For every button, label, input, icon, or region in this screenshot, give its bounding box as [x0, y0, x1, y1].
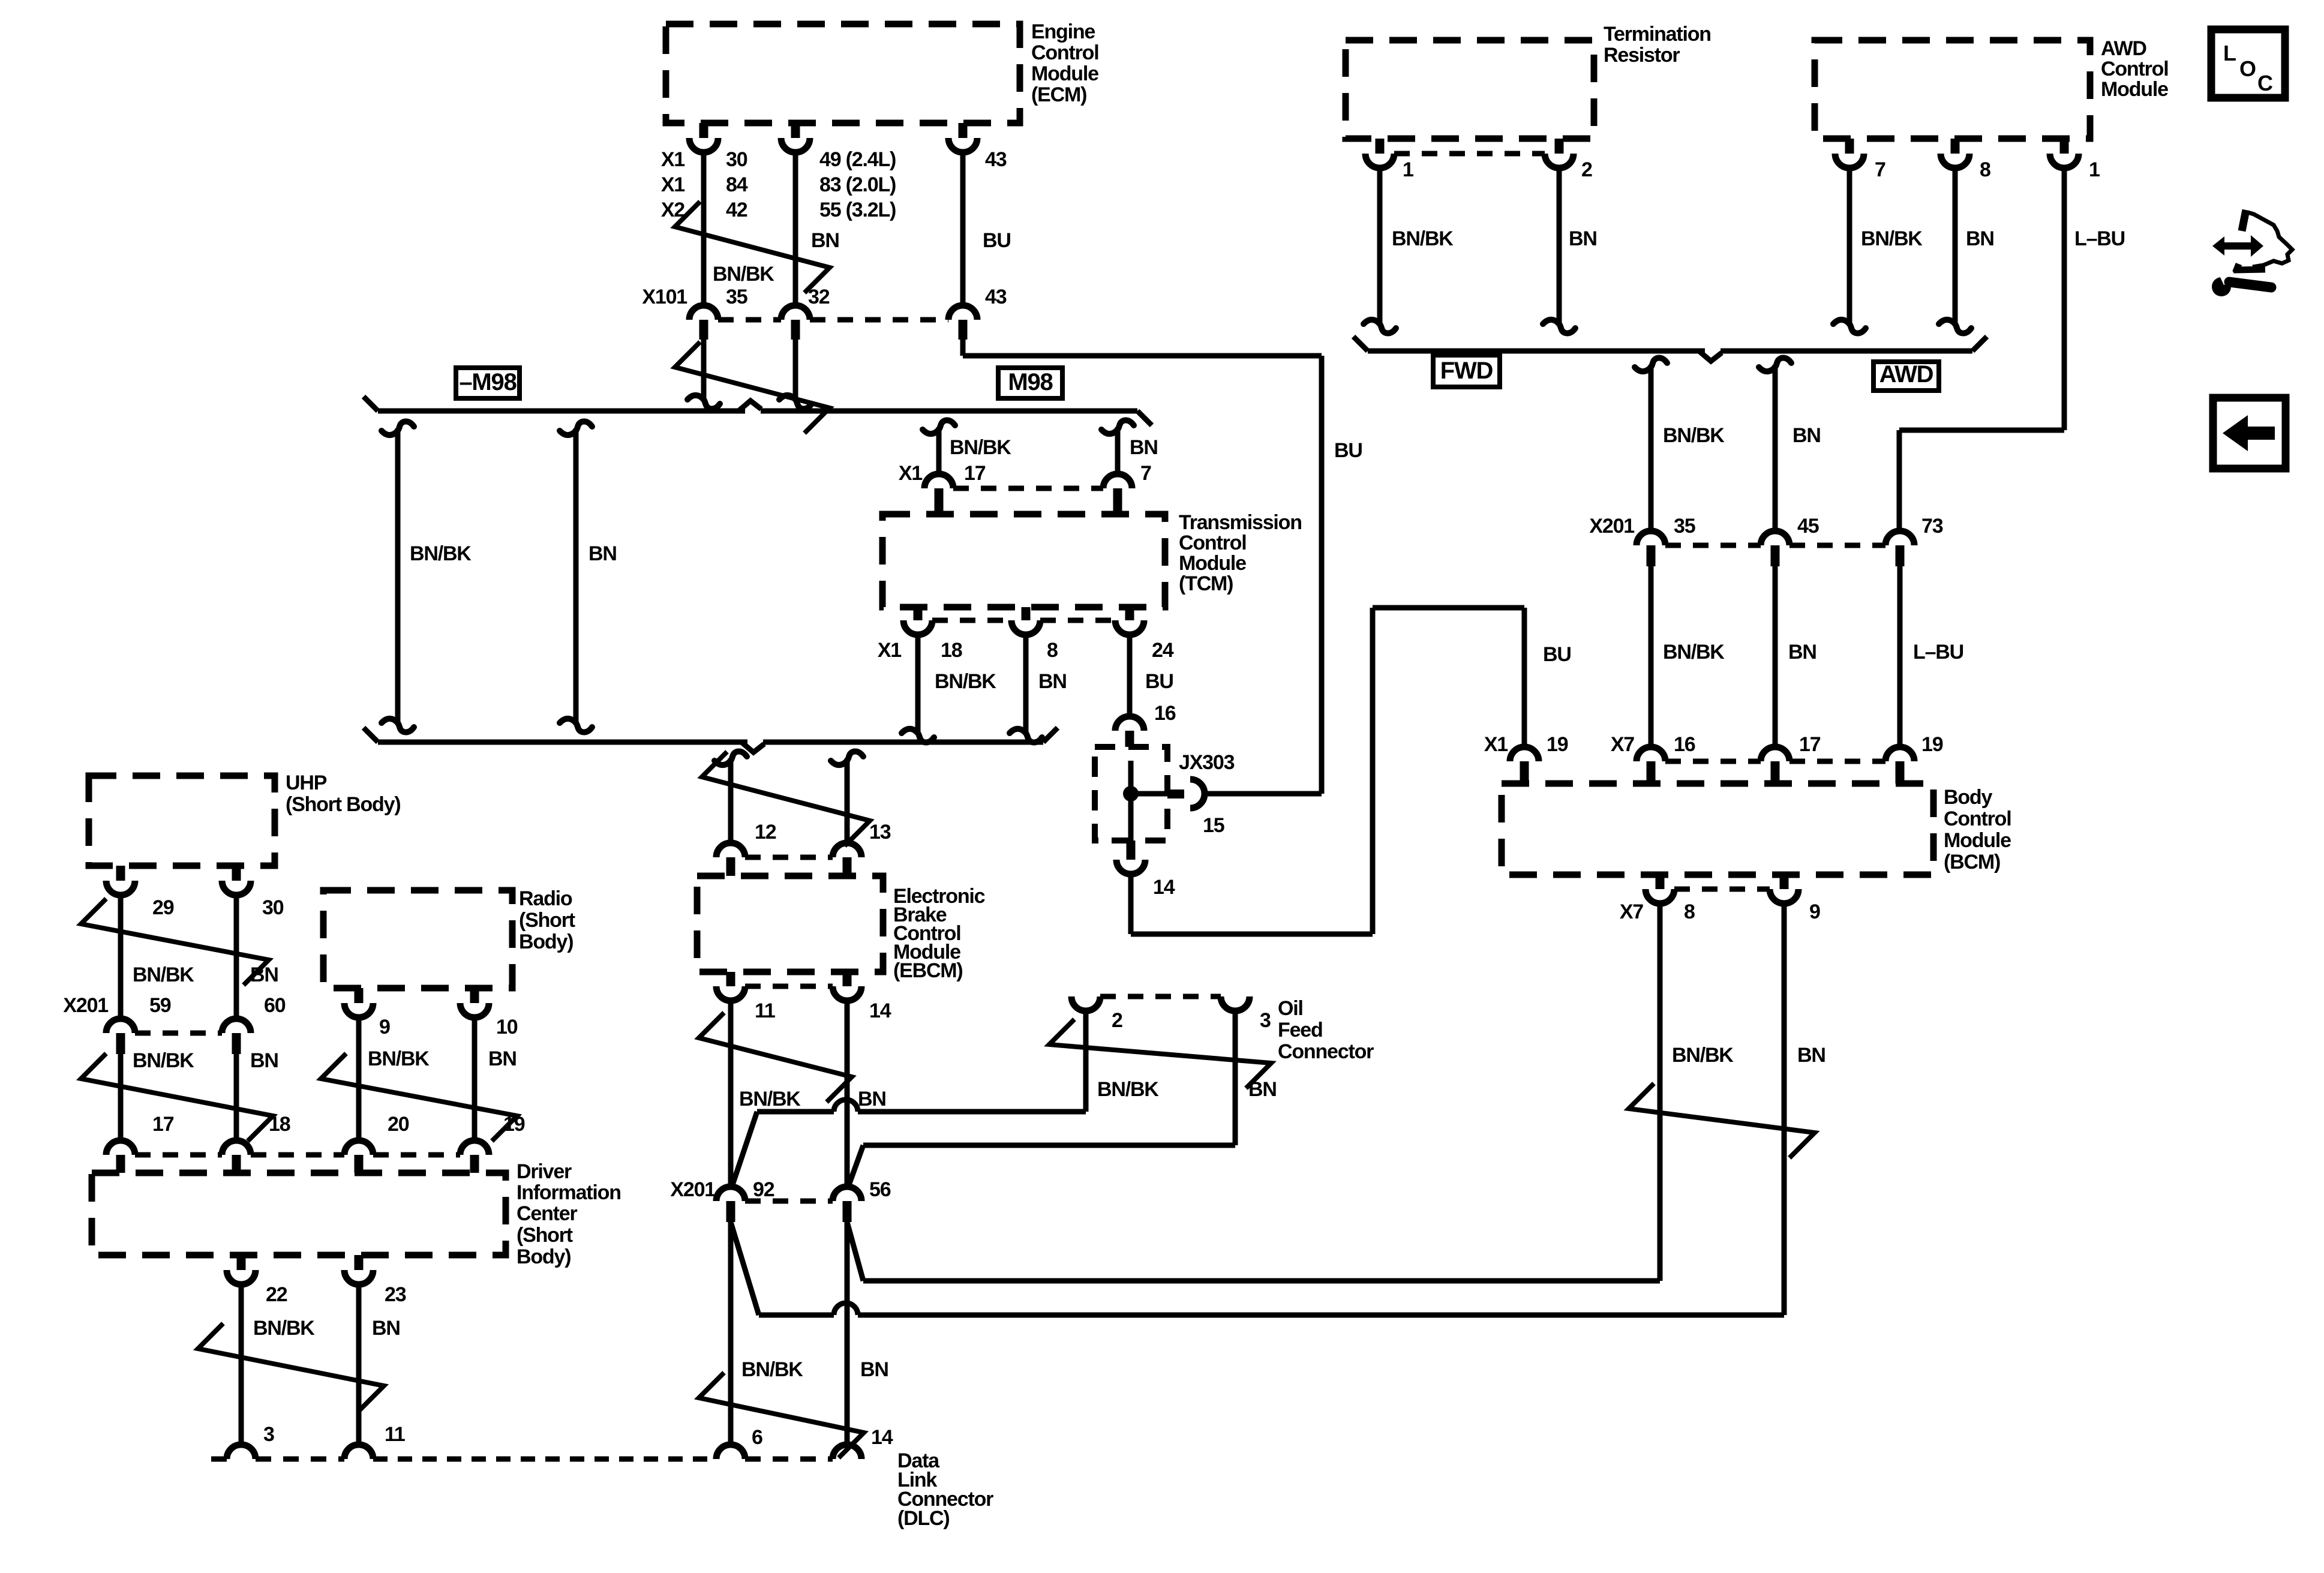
svg-text:AWD: AWD — [1879, 361, 1933, 388]
svg-text:55 (3.2L): 55 (3.2L) — [819, 199, 896, 221]
svg-text:45: 45 — [1797, 515, 1819, 538]
svg-text:3: 3 — [263, 1423, 274, 1446]
svg-text:8: 8 — [1684, 900, 1695, 923]
svg-text:15: 15 — [1203, 814, 1224, 837]
svg-text:BN: BN — [372, 1317, 400, 1340]
svg-text:42: 42 — [726, 199, 747, 221]
svg-text:(Short: (Short — [517, 1224, 573, 1247]
svg-text:13: 13 — [869, 821, 891, 843]
svg-text:Module: Module — [1944, 829, 2011, 852]
svg-text:BN/BK: BN/BK — [1392, 227, 1454, 250]
svg-text:12: 12 — [755, 821, 776, 843]
svg-text:O: O — [2239, 56, 2256, 81]
svg-text:X1: X1 — [899, 462, 922, 485]
svg-text:BN/BK: BN/BK — [1663, 641, 1725, 664]
svg-text:X201: X201 — [63, 994, 108, 1017]
svg-text:9: 9 — [1809, 900, 1820, 923]
svg-text:20: 20 — [388, 1113, 409, 1136]
svg-text:X7: X7 — [1620, 900, 1643, 923]
svg-text:35: 35 — [1674, 515, 1695, 538]
svg-text:BN: BN — [488, 1047, 517, 1070]
svg-text:2: 2 — [1581, 158, 1592, 181]
svg-text:BN/BK: BN/BK — [133, 1049, 194, 1072]
svg-text:–M98: –M98 — [459, 369, 517, 395]
svg-text:8: 8 — [1980, 158, 1990, 181]
svg-text:Information: Information — [517, 1181, 621, 1204]
svg-text:BN: BN — [1569, 227, 1597, 250]
svg-text:Body): Body) — [517, 1245, 571, 1268]
svg-text:84: 84 — [726, 173, 748, 196]
svg-text:(ECM): (ECM) — [1031, 83, 1086, 106]
svg-text:10: 10 — [496, 1016, 518, 1038]
svg-text:Module: Module — [1031, 62, 1098, 85]
svg-text:BN: BN — [1130, 436, 1158, 459]
svg-text:BN/BK: BN/BK — [410, 542, 472, 565]
svg-text:BN: BN — [858, 1088, 886, 1110]
svg-text:BN/BK: BN/BK — [133, 963, 194, 986]
svg-text:BN: BN — [250, 963, 278, 986]
svg-text:BN: BN — [250, 1049, 278, 1072]
svg-text:22: 22 — [266, 1283, 287, 1306]
svg-text:83 (2.0L): 83 (2.0L) — [819, 173, 896, 196]
svg-text:11: 11 — [385, 1423, 405, 1446]
svg-text:59: 59 — [149, 994, 171, 1017]
svg-text:Control: Control — [1944, 807, 2011, 830]
svg-text:Module: Module — [2101, 78, 2168, 101]
svg-text:X1: X1 — [1484, 733, 1508, 756]
svg-text:1: 1 — [2089, 158, 2100, 181]
svg-text:BN: BN — [1792, 424, 1821, 447]
svg-text:19: 19 — [1547, 733, 1568, 756]
svg-text:24: 24 — [1152, 639, 1174, 662]
svg-text:BN/BK: BN/BK — [253, 1317, 315, 1340]
svg-text:14: 14 — [871, 1426, 893, 1449]
svg-text:16: 16 — [1674, 733, 1695, 756]
svg-text:L: L — [2223, 41, 2236, 65]
svg-text:Transmission: Transmission — [1179, 511, 1302, 534]
svg-text:60: 60 — [264, 994, 286, 1017]
svg-text:18: 18 — [269, 1113, 290, 1136]
svg-text:BN: BN — [1248, 1078, 1277, 1101]
svg-text:AWD: AWD — [2101, 37, 2146, 60]
svg-text:17: 17 — [1799, 733, 1821, 756]
svg-text:X7: X7 — [1611, 733, 1634, 756]
svg-text:6: 6 — [752, 1426, 762, 1449]
svg-text:18: 18 — [941, 639, 962, 662]
svg-text:BN: BN — [1038, 670, 1067, 693]
svg-text:BN/BK: BN/BK — [368, 1047, 430, 1070]
svg-text:(TCM): (TCM) — [1179, 572, 1233, 595]
svg-text:(Short Body): (Short Body) — [286, 793, 400, 816]
svg-text:X1: X1 — [878, 639, 901, 662]
svg-text:X1: X1 — [661, 173, 684, 196]
svg-text:BN: BN — [588, 542, 617, 565]
svg-text:BN/BK: BN/BK — [713, 263, 774, 286]
svg-text:2: 2 — [1112, 1009, 1122, 1032]
svg-text:Termination: Termination — [1604, 23, 1711, 46]
svg-text:BN: BN — [860, 1358, 888, 1381]
svg-text:Resistor: Resistor — [1604, 44, 1680, 67]
svg-text:C: C — [2257, 71, 2273, 95]
svg-text:(BCM): (BCM) — [1944, 851, 2000, 873]
svg-text:BN: BN — [811, 229, 839, 252]
svg-text:Control: Control — [1031, 41, 1098, 64]
svg-text:BN/BK: BN/BK — [1663, 424, 1725, 447]
svg-text:30: 30 — [726, 148, 747, 171]
svg-text:BN: BN — [1966, 227, 1994, 250]
svg-text:14: 14 — [1153, 876, 1175, 899]
svg-text:56: 56 — [869, 1178, 891, 1201]
svg-text:17: 17 — [964, 462, 986, 485]
svg-text:7: 7 — [1140, 462, 1151, 485]
svg-text:29: 29 — [152, 896, 174, 919]
svg-text:Module: Module — [1179, 552, 1246, 575]
svg-text:X201: X201 — [1589, 515, 1634, 538]
svg-text:Control: Control — [2101, 58, 2168, 80]
svg-text:FWD: FWD — [1440, 358, 1493, 384]
svg-text:9: 9 — [379, 1016, 390, 1038]
svg-text:16: 16 — [1154, 702, 1176, 725]
svg-text:43: 43 — [985, 148, 1007, 171]
svg-text:73: 73 — [1921, 515, 1943, 538]
svg-text:BN/BK: BN/BK — [935, 670, 996, 693]
svg-text:BU: BU — [1543, 643, 1571, 666]
svg-text:3: 3 — [1260, 1009, 1271, 1032]
svg-text:Control: Control — [1179, 532, 1246, 554]
svg-text:BN: BN — [1797, 1044, 1825, 1067]
svg-text:Radio: Radio — [519, 887, 572, 910]
svg-text:X1: X1 — [661, 148, 684, 171]
svg-text:X2: X2 — [661, 199, 684, 221]
svg-text:Body: Body — [1944, 786, 1992, 809]
svg-text:BU: BU — [983, 229, 1011, 252]
svg-text:19: 19 — [503, 1113, 525, 1136]
svg-text:Center: Center — [517, 1202, 577, 1225]
svg-text:92: 92 — [753, 1178, 774, 1201]
svg-text:14: 14 — [869, 999, 891, 1022]
svg-text:19: 19 — [1921, 733, 1943, 756]
svg-text:JX303: JX303 — [1179, 751, 1235, 774]
svg-text:32: 32 — [808, 286, 830, 308]
svg-text:L–BU: L–BU — [1913, 641, 1963, 664]
svg-text:BN/BK: BN/BK — [739, 1088, 801, 1110]
svg-text:Oil: Oil — [1278, 997, 1303, 1020]
svg-text:43: 43 — [985, 286, 1007, 308]
svg-text:35: 35 — [726, 286, 747, 308]
svg-text:BN: BN — [1788, 641, 1816, 664]
svg-text:11: 11 — [755, 999, 775, 1022]
svg-text:Connector: Connector — [1278, 1040, 1374, 1063]
svg-text:30: 30 — [262, 896, 284, 919]
svg-text:7: 7 — [1875, 158, 1885, 181]
svg-text:M98: M98 — [1008, 369, 1053, 395]
svg-text:BN/BK: BN/BK — [1097, 1078, 1159, 1101]
svg-text:49 (2.4L): 49 (2.4L) — [819, 148, 896, 171]
svg-text:BN/BK: BN/BK — [1861, 227, 1923, 250]
svg-text:Body): Body) — [519, 930, 573, 953]
svg-text:X101: X101 — [642, 286, 687, 308]
svg-text:BN/BK: BN/BK — [1672, 1044, 1734, 1067]
svg-text:X201: X201 — [670, 1178, 715, 1201]
svg-text:Engine: Engine — [1031, 20, 1095, 43]
svg-text:(Short: (Short — [519, 909, 575, 932]
svg-text:23: 23 — [385, 1283, 406, 1306]
svg-text:Feed: Feed — [1278, 1019, 1323, 1041]
svg-text:1: 1 — [1403, 158, 1413, 181]
svg-text:(DLC): (DLC) — [897, 1507, 950, 1530]
svg-text:17: 17 — [152, 1113, 174, 1136]
svg-text:BU: BU — [1334, 439, 1362, 462]
svg-text:BU: BU — [1145, 670, 1173, 693]
svg-text:Driver: Driver — [517, 1160, 572, 1183]
svg-text:L–BU: L–BU — [2074, 227, 2125, 250]
svg-text:BN/BK: BN/BK — [950, 436, 1011, 459]
svg-text:(EBCM): (EBCM) — [893, 959, 963, 982]
svg-text:8: 8 — [1047, 639, 1058, 662]
svg-text:BN/BK: BN/BK — [741, 1358, 803, 1381]
svg-text:UHP: UHP — [286, 772, 327, 794]
